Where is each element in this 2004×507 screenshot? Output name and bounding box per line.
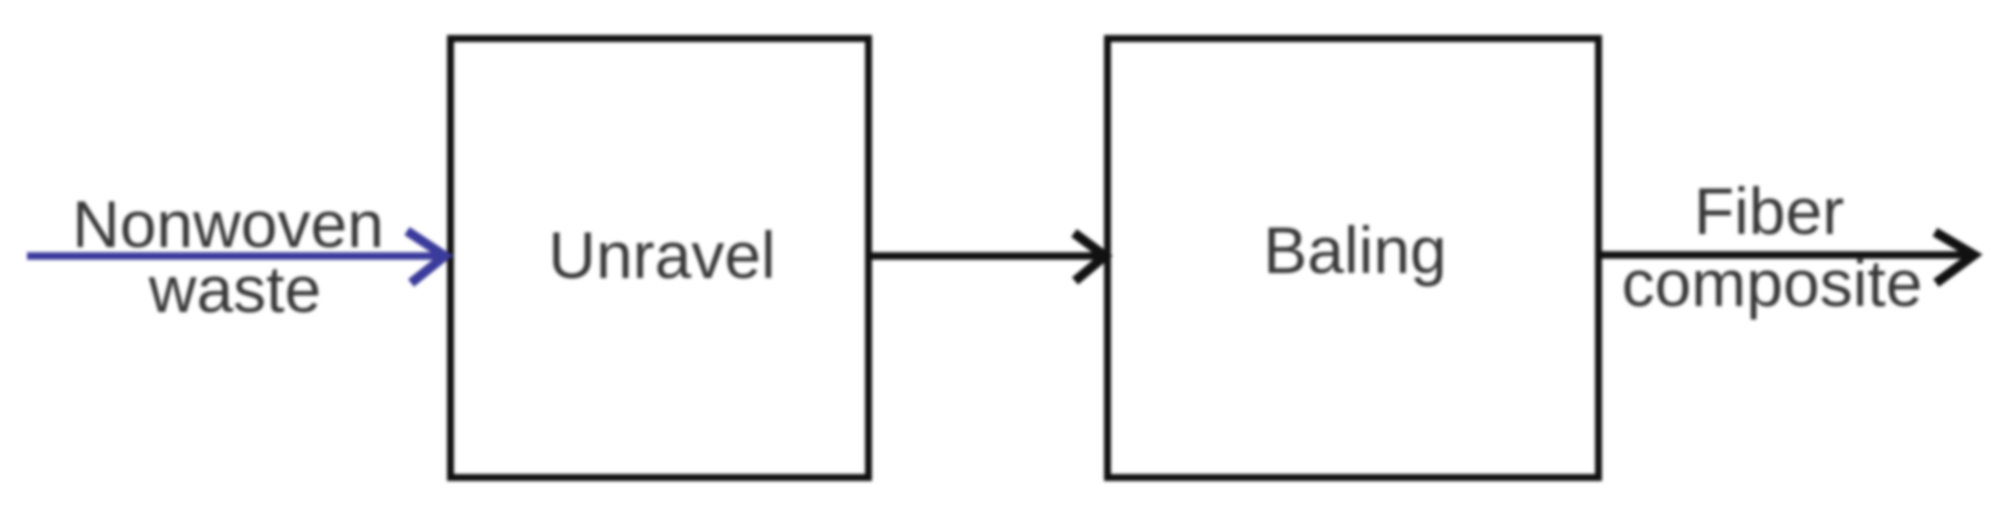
- svg-text:Fiber: Fiber: [1694, 174, 1844, 248]
- svg-text:Baling: Baling: [1263, 213, 1446, 287]
- svg-text:composite: composite: [1622, 246, 1923, 320]
- svg-text:Unravel: Unravel: [548, 218, 775, 292]
- svg-text:waste: waste: [148, 252, 321, 326]
- svg-text:Nonwoven: Nonwoven: [72, 187, 384, 261]
